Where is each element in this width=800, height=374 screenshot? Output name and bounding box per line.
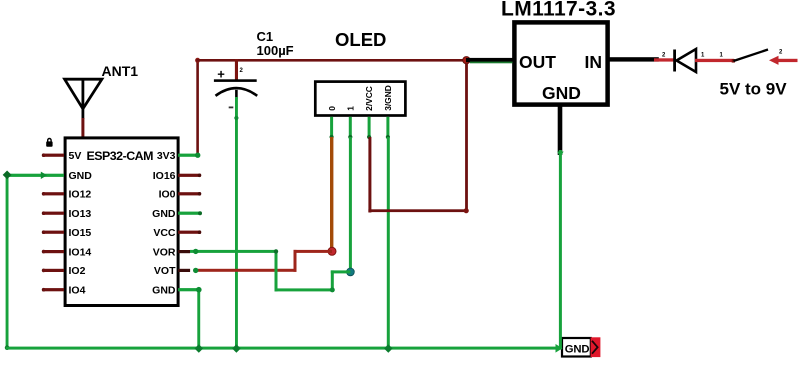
- svg-text:OUT: OUT: [519, 52, 556, 72]
- module OLED body: [315, 82, 405, 116]
- pin GND right-4 (green stub): [178, 212, 200, 215]
- svg-text:VOR: VOR: [153, 246, 176, 258]
- switch S1 lever: [732, 50, 768, 63]
- svg-text:1: 1: [701, 53, 705, 59]
- svg-text:GND: GND: [565, 343, 590, 355]
- node bendpoint red dot: [328, 247, 336, 255]
- capacitor C1 bottom stem: [235, 90, 238, 100]
- node loop corner bendpoint 2: [330, 287, 335, 292]
- pin IO12 (left leg): [43, 192, 65, 195]
- pin IO14 (left leg): [43, 250, 65, 253]
- wire GND right-8 down to bus (green): [197, 288, 200, 349]
- svg-text:IO0: IO0: [159, 189, 176, 201]
- diode D1: [673, 49, 696, 72]
- capacitor C1 lead top (maroon): [235, 59, 238, 80]
- pin IO2 (left leg): [43, 269, 65, 272]
- pin 0 leg (green): [330, 117, 333, 138]
- node OUT junction dot (dark red): [463, 57, 470, 64]
- pin IO4 (left leg): [43, 288, 65, 291]
- svg-text:IO14: IO14: [69, 246, 92, 258]
- node corner diamond left: [3, 171, 12, 180]
- wire OLED pin1 down (green): [349, 137, 352, 272]
- node teal bendpoint dot: [347, 268, 355, 276]
- svg-text:GND: GND: [542, 83, 581, 103]
- svg-text:IO12: IO12: [69, 189, 92, 201]
- node GND-right pin dot: [196, 287, 202, 293]
- svg-text:GND: GND: [152, 285, 176, 297]
- svg-text:3V3: 3V3: [157, 150, 176, 162]
- wire C1 negative lead to bus (green): [235, 97, 238, 349]
- svg-text:OLED: OLED: [335, 29, 386, 50]
- svg-text:IO13: IO13: [69, 208, 92, 220]
- ground flag red pennant: [591, 337, 601, 357]
- pin 5V (left leg): [43, 154, 65, 157]
- svg-text:IO2: IO2: [69, 265, 86, 277]
- svg-text:3/GND: 3/GND: [383, 85, 393, 111]
- svg-text:ESP32-CAM: ESP32-CAM: [87, 149, 154, 163]
- pin GND leg (black): [558, 105, 563, 156]
- pin VOR (right leg): [178, 250, 190, 253]
- node GND-left pin end dot: [41, 172, 47, 179]
- node loop corner bendpoint: [274, 249, 278, 253]
- node right stub tips: [198, 174, 202, 178]
- svg-text:GND: GND: [69, 170, 93, 182]
- svg-text:5V to 9V: 5V to 9V: [720, 79, 788, 98]
- node bus corner dot left: [5, 345, 10, 350]
- svg-text:1: 1: [720, 53, 724, 59]
- wire top rail (maroon horizontal to OUT junction): [196, 59, 466, 62]
- pin GND right-8 (green leg): [178, 288, 199, 291]
- pin 3 leg (green): [386, 117, 389, 138]
- chip U1 ESP32-CAM body: [65, 138, 178, 306]
- svg-text:100µF: 100µF: [257, 43, 294, 58]
- node 3V3 junction dot (green): [195, 153, 200, 158]
- svg-text:LM1117-3.3: LM1117-3.3: [501, 0, 616, 21]
- svg-text:1: 1: [345, 106, 355, 111]
- svg-text:IO4: IO4: [69, 285, 86, 297]
- pin IO16 (right leg): [178, 174, 201, 177]
- wire diode to switch (crimson): [695, 59, 734, 62]
- capacitor C1 top plate: [214, 79, 257, 82]
- node VOT pin end dot (green): [193, 268, 198, 273]
- node rail corner dot: [195, 58, 200, 63]
- pin VOT (right leg): [178, 269, 190, 272]
- svg-text:VOT: VOT: [154, 265, 176, 277]
- wire GND-left to bottom bus (green): [6, 174, 64, 349]
- node VOR pin end dot (green): [193, 249, 198, 254]
- svg-text:C1: C1: [257, 29, 274, 44]
- svg-text:5V: 5V: [69, 150, 82, 162]
- node bus junction diamond at x199: [195, 344, 204, 353]
- svg-text:2: 2: [662, 53, 666, 59]
- pin VCC (right leg): [178, 231, 201, 234]
- wire ground bus (green horizontal): [6, 347, 561, 350]
- wire 3V3 to top rail (maroon vertical): [196, 59, 199, 156]
- pin 3V3 (right leg, green): [178, 154, 198, 157]
- ground flag GND label box: [562, 338, 591, 357]
- svg-text:ANT1: ANT1: [102, 63, 139, 79]
- wire OLED pin3 to bus (green): [387, 137, 390, 349]
- pin IO0 (right leg): [178, 192, 201, 195]
- node bus junction at C1 (diamond): [232, 344, 241, 353]
- svg-text:2: 2: [240, 68, 244, 74]
- node bus junction diamond at x388: [384, 344, 393, 353]
- antenna ANT1: [65, 79, 102, 119]
- supply arrow (red, points left): [769, 56, 798, 65]
- svg-text:2/VCC: 2/VCC: [364, 86, 374, 111]
- capacitor C1 curved plate: [216, 88, 258, 96]
- pin IN leg (black): [608, 57, 659, 61]
- node left stub tips: [42, 153, 46, 157]
- wire VOR loop (green): [190, 250, 350, 292]
- node green arrowhead at flag: [556, 344, 563, 353]
- pin 2 leg (green): [368, 117, 371, 138]
- pin IO13 (left leg): [43, 212, 65, 215]
- svg-text:IN: IN: [585, 52, 603, 72]
- svg-text:VCC: VCC: [153, 227, 176, 239]
- svg-text:0: 0: [327, 106, 337, 111]
- pin 1 leg (green): [349, 117, 352, 138]
- lock icon: [46, 139, 52, 147]
- svg-text:IO15: IO15: [69, 227, 92, 239]
- pin IO15 (left leg): [43, 231, 65, 234]
- pin OUT leg (black with green wire): [466, 58, 513, 63]
- wire IN to diode (crimson): [654, 58, 674, 61]
- node maroon corner bendpoint: [464, 208, 469, 213]
- wire red dot to VOT (dark red): [196, 250, 332, 272]
- node C1 lead bendpoint: [234, 116, 238, 120]
- wire LM GND to ground flag (green): [559, 150, 562, 350]
- wire antenna lead: [81, 118, 84, 137]
- wire OLED pin0 down (orange): [330, 137, 333, 251]
- wire OLED pin2 to OUT rail (maroon loop): [368, 60, 468, 213]
- svg-text:GND: GND: [152, 208, 176, 220]
- capacitor C1 minus tiny label: [229, 107, 234, 109]
- svg-text:IO16: IO16: [153, 170, 176, 182]
- svg-text:2: 2: [779, 50, 783, 56]
- regulator U2 LM1117-3.3 body: [514, 22, 607, 104]
